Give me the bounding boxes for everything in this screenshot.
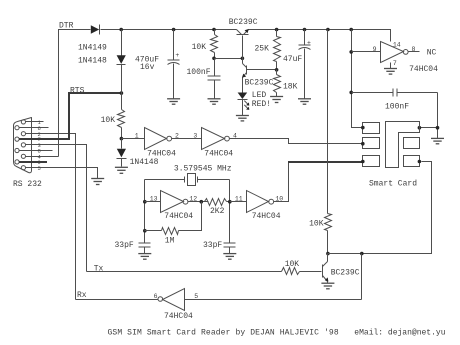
- node IO junction: [326, 252, 330, 256]
- label R4 value: [283, 82, 298, 91]
- node card GND junction: [418, 126, 440, 130]
- wire IO net to card: [328, 162, 432, 254]
- svg-text:LED: LED: [252, 91, 267, 100]
- label R7 value: [309, 219, 324, 228]
- connector J1 RS232 DB9 outline: [14, 118, 32, 173]
- svg-text:47uF: 47uF: [283, 55, 302, 64]
- label smart card: [369, 179, 417, 188]
- svg-text:74HC04: 74HC04: [409, 65, 438, 74]
- svg-text:5: 5: [194, 293, 198, 300]
- svg-text:+: +: [307, 39, 311, 46]
- label U1F pin8: [412, 46, 416, 53]
- diode D4 LED: [238, 78, 248, 116]
- wire RST from U1B to card: [230, 139, 363, 144]
- node rail junction dots: [119, 28, 353, 32]
- wire VCC vertical to card: [352, 30, 363, 128]
- svg-text:1: 1: [135, 133, 139, 140]
- resistor R5 2K2: [205, 199, 230, 206]
- node gate1 input junction: [120, 137, 124, 141]
- wire top rail right (Q1 emitter to U1F pin14): [249, 30, 391, 42]
- label U1F pin14: [393, 41, 401, 48]
- svg-text:GSM SIM Smart Card Reader by D: GSM SIM Smart Card Reader by DEJAN HALJE…: [108, 328, 339, 337]
- smart card pad VCC: [363, 123, 380, 134]
- svg-text:14: 14: [393, 41, 401, 48]
- svg-text:Tx: Tx: [94, 265, 104, 274]
- wire J1 pin7 RTS thick: [19, 93, 121, 139]
- svg-text:33pF: 33pF: [203, 241, 222, 250]
- svg-text:10K: 10K: [309, 219, 324, 228]
- node RTS junction: [120, 91, 124, 95]
- label U1E pin5: [194, 293, 198, 300]
- label C1 plus: [175, 52, 179, 59]
- op-amp U1A inverter 74HC04: [145, 128, 172, 150]
- node 100nF junction: [349, 91, 353, 95]
- op-amp U1E inverter 74HC04 mirrored: [158, 289, 185, 311]
- diode D2 1N4148 shunt top: [117, 30, 126, 94]
- wire U1A out to U1B in: [172, 138, 202, 140]
- ground J1 pin5: [91, 179, 104, 185]
- smart card pad RST: [363, 138, 380, 149]
- ground C1: [167, 99, 180, 104]
- ground C2: [208, 99, 221, 104]
- wire J1 pin5 ground wire: [26, 168, 98, 179]
- node Rx tap junction: [360, 252, 364, 256]
- svg-text:25K: 25K: [255, 44, 270, 53]
- node DTR label: [59, 22, 74, 31]
- wire card GND net: [420, 93, 438, 139]
- svg-text:1N4148: 1N4148: [130, 158, 159, 167]
- resistor R6 1M feedback: [145, 202, 202, 235]
- op-amp U1B inverter 74HC04: [202, 128, 230, 150]
- wire J1 pin3 Tx vertical: [26, 145, 87, 272]
- label U1C pin12: [189, 196, 197, 203]
- smart card pad VPP: [404, 138, 420, 149]
- node U1C input junction: [143, 200, 161, 204]
- label C6 value: [203, 241, 222, 250]
- svg-text:3.579545 MHz: 3.579545 MHz: [174, 165, 232, 174]
- label U1D pin10: [275, 196, 283, 203]
- label U1D pin11: [235, 196, 243, 203]
- label C1 value: [135, 55, 159, 72]
- capacitor C4 100nF decoupling: [352, 89, 438, 97]
- label NC: [427, 48, 437, 57]
- svg-text:6: 6: [154, 293, 158, 300]
- capacitor C3 47uF: [299, 30, 311, 99]
- svg-text:9: 9: [373, 46, 377, 53]
- label D4 value: [252, 91, 271, 109]
- label U1A pin1: [135, 133, 139, 140]
- wire Rx tap vertical: [361, 254, 363, 300]
- op-amp U1D inverter 74HC04: [247, 191, 274, 213]
- svg-text:100nF: 100nF: [187, 68, 211, 77]
- label U1C pin13: [150, 196, 158, 203]
- svg-text:5: 5: [38, 165, 41, 172]
- capacitor C2 100nF: [208, 59, 221, 99]
- label Tx: [94, 265, 104, 274]
- ground card: [431, 138, 444, 143]
- crystal X1: [145, 174, 230, 186]
- label Rx: [77, 291, 87, 300]
- label R1 value: [101, 116, 116, 125]
- svg-text:10K: 10K: [285, 260, 300, 269]
- resistor R1 10K vertical: [118, 94, 125, 139]
- svg-text:74HC04: 74HC04: [252, 212, 281, 221]
- svg-text:7: 7: [393, 60, 397, 67]
- resistor R7 10K pull-up: [325, 214, 332, 254]
- capacitor C5 33pF left: [139, 243, 151, 254]
- label D2 value: [78, 56, 107, 65]
- svg-text:RTS: RTS: [70, 86, 85, 95]
- transistor Q3 BC239C output: [323, 254, 329, 283]
- label C5 value: [115, 241, 134, 250]
- svg-text:18K: 18K: [283, 82, 298, 91]
- label U1A name: [147, 150, 176, 159]
- wire J1 pin1 stub: [26, 121, 44, 123]
- node 1M left junction: [143, 229, 147, 233]
- node R2 bottom junction: [212, 57, 244, 61]
- label email: [354, 328, 445, 337]
- svg-text:11: 11: [235, 196, 243, 203]
- svg-text:1N4148: 1N4148: [78, 56, 107, 65]
- ground D3: [115, 167, 128, 173]
- resistor R2 10K top: [211, 30, 218, 59]
- svg-text:RED!: RED!: [252, 100, 271, 109]
- wire gate1 input: [122, 138, 145, 140]
- node U1F input junction: [349, 50, 380, 54]
- diode D3 1N4148 shunt bottom: [117, 139, 127, 167]
- label C2 value: [187, 68, 211, 77]
- svg-text:DTR: DTR: [59, 22, 74, 31]
- svg-text:Rx: Rx: [77, 291, 87, 300]
- label U1F pin7: [393, 60, 397, 67]
- svg-text:1M: 1M: [165, 236, 175, 245]
- label C3 value: [283, 55, 302, 64]
- svg-text:74HC04: 74HC04: [147, 150, 176, 159]
- label R5 value: [210, 207, 225, 216]
- wire osc left vertical: [144, 180, 146, 244]
- node U1C output junction: [188, 200, 209, 204]
- label D4 LED arrows: [244, 101, 249, 110]
- label U1D name: [252, 212, 281, 221]
- label U1E pin6: [154, 293, 158, 300]
- ground U1F: [384, 69, 397, 75]
- wire U1F pin7 ground stub: [390, 63, 392, 69]
- label Q2 value: [245, 78, 274, 87]
- svg-text:NC: NC: [427, 48, 437, 57]
- label U1F name: [409, 65, 438, 74]
- label U1F pin9: [373, 46, 377, 53]
- label R2 value: [192, 43, 207, 52]
- svg-text:1N4149: 1N4149: [78, 43, 107, 52]
- ground R4: [270, 97, 283, 103]
- smart card pad IO: [404, 156, 420, 167]
- wire Rx horizontal: [76, 299, 159, 301]
- label RS 232: [13, 180, 42, 189]
- node Q2 base junction: [275, 68, 279, 72]
- ground Q3: [321, 283, 334, 289]
- label R3 value: [255, 44, 270, 53]
- capacitor C6 33pF right: [224, 243, 236, 254]
- svg-text:8: 8: [412, 46, 416, 53]
- svg-text:2K2: 2K2: [210, 207, 225, 216]
- transistor Q1 BC239C top: [237, 29, 249, 59]
- label oscillator frequency: [174, 165, 232, 174]
- wire CLK from U1D to card: [274, 162, 364, 202]
- svg-text:+: +: [175, 52, 179, 59]
- svg-text:10K: 10K: [192, 43, 207, 52]
- label Q3 value: [331, 268, 360, 277]
- wire IO pull-up vertical: [327, 30, 329, 214]
- label R8 value: [285, 260, 300, 269]
- wire Tx horizontal: [87, 271, 282, 273]
- wire J1 pin4 DTR stub: [26, 156, 59, 158]
- svg-text:33pF: 33pF: [115, 241, 134, 250]
- op-amp U1F inverter 74HC04: [381, 42, 409, 63]
- ground C5: [138, 254, 151, 260]
- svg-text:100nF: 100nF: [385, 103, 409, 112]
- svg-text:RS 232: RS 232: [13, 180, 42, 189]
- label RTS: [70, 86, 85, 95]
- resistor R3 25K: [274, 30, 281, 70]
- svg-text:Smart Card: Smart Card: [369, 179, 417, 188]
- svg-text:BC239C: BC239C: [229, 18, 258, 27]
- wire J1 pin8 stub: [20, 150, 53, 152]
- wire osc right vertical: [229, 180, 231, 244]
- label U1B name: [204, 150, 233, 159]
- svg-text:74HC04: 74HC04: [164, 212, 193, 221]
- label U1B pin3: [193, 133, 197, 140]
- wire U1E input from IO: [185, 299, 362, 301]
- label Q1 value: [229, 18, 258, 27]
- label U1C name: [164, 212, 193, 221]
- connector J1 pin circles: [15, 120, 26, 170]
- ground D4: [236, 116, 249, 121]
- label C3 plus: [307, 39, 311, 46]
- resistor R4 18K: [274, 70, 281, 97]
- wire J1 pin2 Rx to gate: [26, 134, 76, 300]
- label R6 value: [165, 236, 175, 245]
- svg-text:eMail: dejan@net.yu: eMail: dejan@net.yu: [354, 328, 445, 337]
- resistor R8 10K base: [282, 268, 322, 275]
- wire U1F output NC: [409, 51, 420, 53]
- svg-text:74HC04: 74HC04: [164, 312, 193, 321]
- node U1D input junction: [228, 200, 247, 204]
- diode D1 1N4149 series: [91, 25, 100, 35]
- smart card pad GND center shape: [386, 122, 420, 168]
- label D3 value: [130, 158, 159, 167]
- smart card pad CLK: [363, 156, 380, 167]
- op-amp U1C inverter 74HC04: [161, 191, 188, 213]
- transistor Q2 BC239C driver: [242, 59, 277, 78]
- node card pad connections: [361, 126, 421, 164]
- svg-text:74HC04: 74HC04: [204, 150, 233, 159]
- capacitor C1 470uF: [168, 30, 180, 99]
- ground C3: [298, 99, 311, 104]
- wire J1 pin9 stub thick: [19, 161, 47, 163]
- svg-text:16v: 16v: [140, 63, 155, 72]
- svg-text:BC239C: BC239C: [331, 268, 360, 277]
- label J1 pin numbers: [38, 119, 42, 172]
- svg-text:10K: 10K: [101, 116, 116, 125]
- label D1 value: [78, 43, 107, 52]
- ground C6: [223, 254, 236, 260]
- label U1E name: [164, 312, 193, 321]
- label C4 value: [385, 103, 409, 112]
- label title: [108, 328, 339, 337]
- wire top rail left (DTR to Q1 collector): [59, 30, 237, 157]
- svg-text:13: 13: [150, 196, 158, 203]
- svg-text:BC239C: BC239C: [245, 78, 274, 87]
- label U1A pin2: [175, 133, 179, 140]
- wire J1 pin6 stub: [20, 127, 49, 129]
- svg-text:3: 3: [193, 133, 197, 140]
- label U1B pin4: [233, 133, 237, 140]
